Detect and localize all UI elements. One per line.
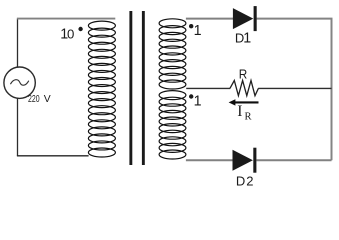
diode D1 (233, 6, 257, 31)
wire: left vertical, source bottom to bottom-left corner (17, 98, 19, 156)
svg-text:I: I (237, 103, 242, 120)
polarity dot (secondary bottom) (189, 94, 193, 98)
transformer primary winding (88, 21, 115, 157)
current direction arrow for I_R (pointing left) (229, 99, 259, 105)
secondary winding bottom half (159, 91, 186, 159)
polarity dot (secondary top) (189, 24, 193, 28)
svg-text:220: 220 (28, 94, 40, 105)
svg-text:R: R (245, 111, 253, 122)
secondary winding top half (159, 19, 186, 89)
transformer core (two bars) (129, 11, 144, 165)
wire: left vertical, source top to top-left corner (17, 19, 19, 68)
svg-text:V: V (44, 94, 51, 105)
wire: center tap to resistor R (186, 87, 230, 89)
value label 220 V (28, 94, 51, 105)
svg-text:2: 2 (246, 173, 253, 188)
svg-text:D: D (236, 173, 245, 188)
svg-text:1: 1 (194, 23, 202, 39)
wire: primary top, corner to primary winding (17, 18, 115, 20)
svg-text:1: 1 (194, 94, 202, 110)
wire: secondary top to D1 anode (186, 18, 233, 20)
turns label 10 (primary) (60, 27, 74, 43)
polarity dot (primary) (78, 27, 82, 31)
svg-text:R: R (239, 66, 248, 81)
diode D2 (233, 148, 257, 173)
label D1 (235, 31, 251, 47)
svg-text:0: 0 (67, 27, 74, 42)
label D2 (236, 173, 254, 188)
label I_R (237, 103, 252, 122)
wire: D1 cathode to top-right corner and down right side (257, 19, 332, 161)
ac source V1 (4, 67, 35, 98)
wire: resistor R to right side (258, 87, 331, 89)
resistor R (230, 81, 259, 96)
wire: secondary bottom to D2 anode (186, 159, 233, 161)
wire: D2 cathode to bottom-right corner (257, 159, 332, 161)
wire: primary bottom, corner to primary winding (17, 155, 89, 157)
svg-text:1: 1 (243, 31, 251, 47)
